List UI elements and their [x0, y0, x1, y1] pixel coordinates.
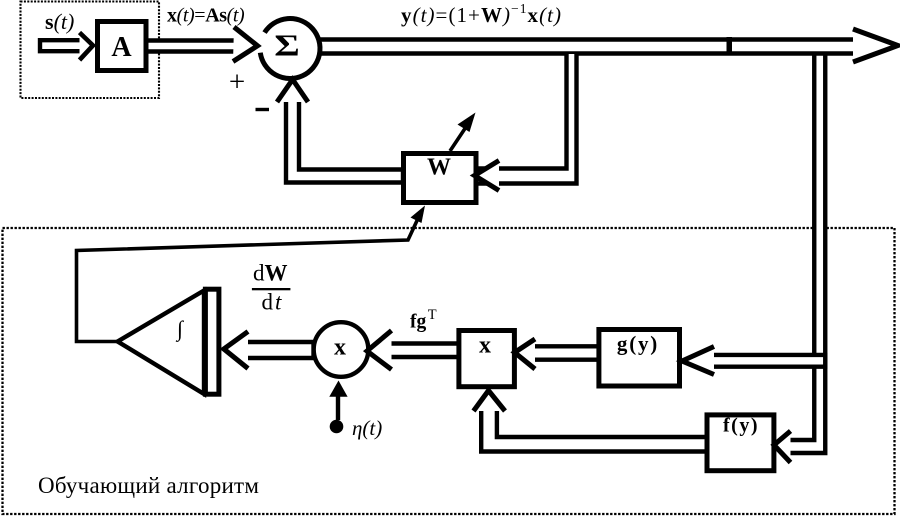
svg-text:x: x	[334, 335, 346, 361]
svg-text:dW: dW	[253, 261, 288, 286]
svg-text:f(y): f(y)	[723, 415, 759, 437]
svg-text:x(t)=As(t): x(t)=As(t)	[167, 5, 245, 27]
svg-text:g(y): g(y)	[617, 332, 659, 356]
svg-text:y(t)=(1+W)−1x(t): y(t)=(1+W)−1x(t)	[401, 1, 562, 27]
svg-text:+: +	[229, 66, 245, 98]
svg-text:A: A	[111, 32, 132, 63]
svg-text:s(t): s(t)	[45, 9, 74, 34]
svg-text:x: x	[479, 333, 491, 359]
svg-text:dt: dt	[262, 290, 284, 315]
svg-text:Σ: Σ	[274, 28, 300, 63]
svg-text:η(t): η(t)	[352, 416, 382, 440]
svg-text:Обучающий алгоритм: Обучающий алгоритм	[38, 473, 259, 498]
svg-text:W: W	[427, 155, 451, 181]
